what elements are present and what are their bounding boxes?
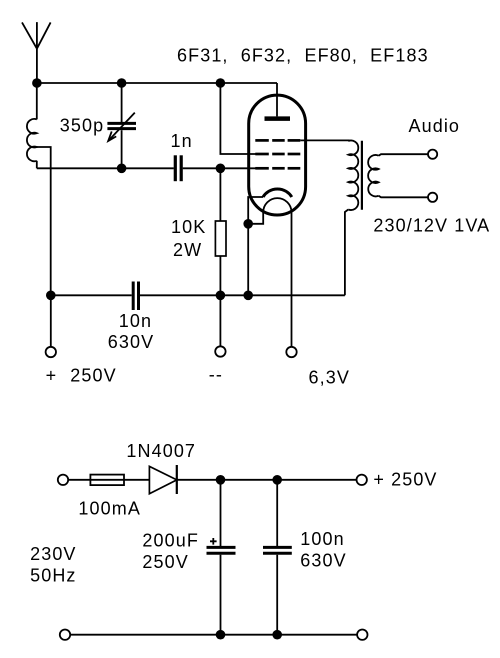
- svg-text:1N4007: 1N4007: [126, 441, 196, 461]
- junction coil tap / +250V: [46, 291, 56, 301]
- junction cathode/heater: [243, 219, 253, 229]
- svg-text:6F31, 6F32, EF80, EF183: 6F31, 6F32, EF80, EF183: [177, 46, 429, 66]
- svg-text:100n: 100n: [300, 529, 344, 549]
- wire antenna lead-in: [36, 49, 38, 83]
- wire coil tap: [37, 147, 51, 295]
- variable capacitor 350p: [107, 83, 136, 168]
- junction 350p top: [117, 78, 127, 88]
- wire heater right leg to 6,3V: [291, 212, 293, 347]
- terminal mains live: [58, 475, 68, 485]
- terminal audio bottom: [428, 193, 437, 202]
- terminal +250V out: [357, 475, 367, 485]
- fuse 100mA: [90, 475, 124, 486]
- wire psu bottom rail: [70, 634, 357, 636]
- svg-text:630V: 630V: [300, 551, 346, 571]
- wire to minus terminal: [219, 295, 221, 346]
- transformer T1 core: [361, 141, 363, 210]
- capacitor 1n (coupling): [175, 155, 181, 181]
- svg-text:50Hz: 50Hz: [30, 566, 76, 586]
- terminal psu bottom right: [357, 630, 367, 640]
- junction 200uF top: [216, 475, 226, 485]
- wire anode dash row to transformer: [300, 139, 349, 141]
- wire to +250V terminal: [50, 295, 52, 347]
- grid 2 dashes: [255, 153, 300, 156]
- svg-text:6,3V: 6,3V: [309, 368, 350, 388]
- svg-text:1n: 1n: [171, 131, 193, 151]
- wire mains to diode: [68, 479, 149, 481]
- polarity plus sign: [210, 538, 217, 545]
- svg-text:350p: 350p: [60, 116, 104, 136]
- junction 10K bottom: [216, 291, 226, 301]
- anode plate bar: [265, 116, 291, 121]
- svg-text:630V: 630V: [108, 332, 154, 352]
- svg-text:+ 250V: + 250V: [373, 469, 437, 489]
- wire cathode lead: [248, 197, 263, 295]
- capacitor 200uF 250V electrolytic: [220, 480, 222, 546]
- terminal 6,3V: [286, 347, 296, 357]
- junction 200uF bottom: [216, 630, 226, 640]
- triode/pentode tube U1 envelope: [249, 95, 306, 215]
- terminal mains neutral: [60, 630, 70, 640]
- junction cathode ground: [243, 291, 253, 301]
- junction 100n top: [272, 475, 282, 485]
- inductor L1 (tuning coil): [27, 83, 37, 168]
- wire 1n to grid: [183, 167, 256, 169]
- svg-text:--: --: [209, 365, 223, 385]
- resistor 10K 2W: [219, 168, 221, 221]
- terminal audio top: [428, 150, 437, 159]
- wire tank bottom: [37, 167, 174, 169]
- junction screen-grid feed: [216, 78, 226, 88]
- wire screen grid feed: [220, 83, 255, 154]
- diode D1 1N4007: [149, 466, 176, 493]
- transformer T1 primary: [345, 141, 358, 296]
- svg-text:230V: 230V: [30, 544, 76, 564]
- svg-text:250V: 250V: [142, 552, 188, 572]
- capacitor 10n 630V: [133, 282, 138, 311]
- svg-text:230/12V 1VA: 230/12V 1VA: [373, 216, 490, 236]
- anode lead: [276, 83, 278, 116]
- svg-text:100mA: 100mA: [78, 499, 141, 519]
- wire heater left leg: [248, 212, 263, 224]
- svg-text:+ 250V: + 250V: [46, 366, 117, 386]
- cathode: [263, 189, 292, 197]
- svg-text:2W: 2W: [173, 240, 202, 260]
- capacitor 100n 630V: [276, 480, 278, 546]
- grid 1 dashes: [255, 167, 300, 170]
- transformer T1 secondary: [368, 154, 428, 197]
- junction grid node: [216, 164, 226, 174]
- svg-text:10K: 10K: [171, 217, 206, 237]
- junction 350p bottom: [117, 164, 127, 174]
- junction 100n bottom: [272, 630, 282, 640]
- svg-text:10n: 10n: [119, 311, 152, 331]
- heater filament: [263, 198, 291, 212]
- svg-text:Audio: Audio: [409, 116, 461, 136]
- terminal minus: [215, 346, 225, 356]
- terminal +250V: [46, 347, 56, 357]
- junction antenna/coil/rail: [32, 78, 42, 88]
- wire top rail: [37, 82, 277, 84]
- grid 3 dashes: [255, 139, 300, 142]
- svg-text:200uF: 200uF: [142, 531, 199, 551]
- antenna: [22, 22, 51, 49]
- wire diode to +250V terminal: [177, 479, 357, 481]
- wire bottom rail: [51, 294, 132, 296]
